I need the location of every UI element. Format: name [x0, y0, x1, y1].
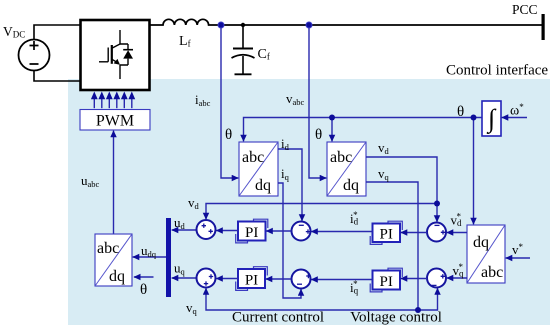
- diode of IGBT (filled): [123, 50, 133, 58]
- node v_abc tap: [306, 22, 312, 28]
- capacitor Cf: [241, 23, 245, 27]
- wire u_d into bar: [172, 229, 197, 231]
- svg-text:θ: θ: [315, 127, 322, 143]
- wire box4 to C1 (v_d*): [447, 232, 467, 234]
- svg-text:vq*: vq*: [453, 262, 465, 279]
- wire box4 to C2 (v_q*): [447, 277, 467, 279]
- node v_q branch: [415, 307, 421, 313]
- node i_abc tap: [218, 22, 224, 28]
- svg-text:θ: θ: [140, 282, 147, 298]
- svg-text:PCC: PCC: [512, 2, 538, 17]
- wire C2 to PI4: [401, 278, 427, 280]
- PWM gate arrows (6): [91, 92, 135, 109]
- svg-text:dq: dq: [109, 268, 125, 285]
- svg-text:abc: abc: [481, 264, 503, 281]
- svg-text:Cf: Cf: [258, 47, 270, 62]
- wire theta stub into box3: [134, 276, 154, 278]
- node theta junction: [471, 115, 477, 121]
- wire theta down to dq-abc box: [473, 118, 475, 225]
- svg-text:vd*: vd*: [451, 212, 463, 229]
- svg-text:PWM: PWM: [96, 113, 134, 130]
- svg-text:PI: PI: [380, 274, 393, 290]
- svg-text:Voltage control: Voltage control: [350, 310, 442, 326]
- wire i_d from box1: [278, 149, 302, 221]
- svg-text:dq: dq: [473, 234, 489, 251]
- summing node A1: [197, 220, 216, 239]
- wire omega* input: [502, 117, 527, 119]
- transform box2 abc-dq (voltage): [327, 142, 366, 196]
- node theta branch: [329, 115, 335, 121]
- svg-text:PI: PI: [245, 273, 258, 289]
- mux bar u_dq: [166, 218, 171, 297]
- svg-text:dq: dq: [343, 177, 359, 194]
- svg-text:Current control: Current control: [232, 310, 324, 326]
- svg-text:iq*: iq*: [350, 279, 359, 296]
- wire v_d from box2: [366, 157, 437, 222]
- wire PI4 to B2 (i_q*): [311, 279, 372, 281]
- svg-text:abc: abc: [97, 240, 119, 257]
- wire i_q from box1: [278, 183, 301, 298]
- wire u_dq to box3: [133, 256, 166, 258]
- wire u_abc to PWM: [113, 131, 115, 234]
- svg-text:PI: PI: [380, 227, 393, 243]
- svg-text:VDC: VDC: [3, 24, 25, 40]
- PCC bar: [542, 14, 545, 40]
- control interface shaded region: [68, 79, 550, 325]
- PI controller PI3: [236, 267, 268, 291]
- PI controller PI2: [370, 221, 402, 244]
- wire v_q from box2: [366, 182, 418, 310]
- wire B2 to PI3: [266, 278, 292, 280]
- svg-text:θ: θ: [225, 127, 232, 143]
- PI controller PI1: [236, 219, 268, 243]
- wire theta branch to box2: [331, 118, 333, 142]
- svg-text:θ: θ: [457, 104, 464, 120]
- wire v_d feedforward branch: [206, 204, 437, 220]
- transform box1 abc-dq (current): [239, 142, 278, 196]
- summing node C2: [427, 269, 446, 288]
- wire v* input: [506, 257, 530, 259]
- svg-text:dq: dq: [255, 177, 271, 194]
- transform box4 dq-abc (reference): [467, 225, 505, 283]
- node v_d branch: [434, 201, 440, 207]
- emitter arrowhead: [114, 59, 120, 65]
- wire: VDC to inverter bottom: [34, 71, 81, 82]
- integrator U2: [482, 101, 501, 136]
- svg-text:Lf: Lf: [179, 34, 191, 49]
- summing node A2: [197, 269, 216, 288]
- wire PI2 to B1 (i_d*): [311, 231, 372, 233]
- wire v_q to C2: [418, 288, 438, 310]
- svg-text:PI: PI: [245, 225, 258, 241]
- inverter U1 box: [81, 20, 150, 90]
- PI controller PI4: [370, 268, 402, 292]
- wire u_q into bar: [172, 277, 197, 279]
- wire B1 to PI1: [266, 230, 291, 232]
- wire theta distribution line: [244, 118, 483, 142]
- source VDC: [19, 40, 50, 71]
- transform box3 abc-dq (modulation): [95, 234, 132, 286]
- wire v_abc tap: [309, 25, 326, 178]
- summing node B2: [292, 270, 311, 289]
- svg-text:Control interface: Control interface: [446, 63, 548, 79]
- PWM box: [80, 110, 150, 131]
- svg-text:id*: id*: [350, 210, 359, 227]
- wire v_q feedforward to A2: [206, 288, 418, 310]
- wire: main bus with inductor to PCC: [150, 19, 542, 25]
- wire C1 to PI2: [401, 232, 427, 234]
- svg-text:abc: abc: [242, 149, 264, 166]
- transistor IGBT inside inverter: [99, 30, 133, 79]
- wire i_abc tap: [221, 25, 238, 178]
- svg-text:abc: abc: [330, 149, 352, 166]
- summing node B1: [292, 222, 311, 241]
- wire: VDC to inverter top: [34, 25, 81, 40]
- summing node C1: [427, 223, 446, 242]
- wire PI3 to A2: [216, 278, 238, 280]
- wire PI1 to A1: [216, 230, 238, 232]
